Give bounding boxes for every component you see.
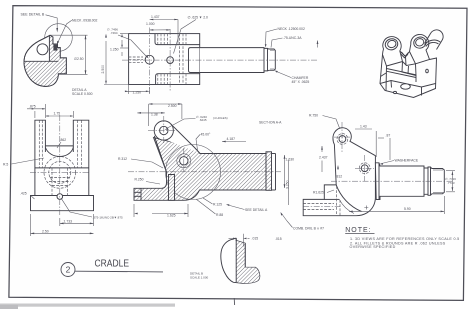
svg-text:1.75: 1.75 <box>54 112 61 116</box>
svg-text:NECK .12500.002: NECK .12500.002 <box>278 27 305 31</box>
svg-text:SEE DETAIL A: SEE DETAIL A <box>245 208 268 212</box>
svg-text:4.187: 4.187 <box>227 137 236 141</box>
svg-text:R.5: R.5 <box>3 163 8 167</box>
svg-text:1.733: 1.733 <box>64 219 73 223</box>
svg-text:2: 2 <box>66 265 71 275</box>
svg-text:45° X .0625: 45° X .0625 <box>292 80 310 84</box>
svg-text:R.250: R.250 <box>135 178 144 182</box>
svg-text:.6245: .6245 <box>199 118 207 122</box>
svg-text:2.437: 2.437 <box>319 156 328 160</box>
svg-text:3.250: 3.250 <box>286 180 290 189</box>
svg-text:∅ .625 ▼ 2.0: ∅ .625 ▼ 2.0 <box>188 16 209 20</box>
svg-text:5.90: 5.90 <box>404 207 411 211</box>
svg-text:1.43: 1.43 <box>360 125 367 129</box>
svg-text:.375-16UNC-2B▼.875: .375-16UNC-2B▼.875 <box>93 216 123 220</box>
svg-text:.015: .015 <box>252 237 259 241</box>
svg-text:NECK .0938.002: NECK .0938.002 <box>72 19 98 23</box>
svg-text:1.630: 1.630 <box>286 158 295 162</box>
svg-text:NOTE:: NOTE: <box>345 227 371 234</box>
svg-text:SCALE 1.000: SCALE 1.000 <box>190 276 209 280</box>
svg-text:SCALE 0.500: SCALE 0.500 <box>72 92 93 96</box>
svg-text:45.00°: 45.00° <box>201 133 211 137</box>
svg-text:.7713: .7713 <box>447 181 455 185</box>
svg-text:R.88: R.88 <box>216 213 223 217</box>
svg-text:(4 HOLES): (4 HOLES) <box>213 116 228 120</box>
svg-text:R.312: R.312 <box>118 157 127 161</box>
svg-text:.812: .812 <box>336 175 343 179</box>
svg-text:∅2.50: ∅2.50 <box>74 57 84 61</box>
svg-text:R.750: R.750 <box>309 114 318 118</box>
svg-text:1.250: 1.250 <box>110 48 119 52</box>
svg-text:1. 3D VIEWS ARE FOR REFERENCES: 1. 3D VIEWS ARE FOR REFERENCES ONLY SCAL… <box>350 237 460 241</box>
svg-text:1.625: 1.625 <box>167 214 176 218</box>
svg-text:.015: .015 <box>275 237 282 241</box>
svg-text:1.250: 1.250 <box>133 90 142 94</box>
svg-text:2.50: 2.50 <box>42 229 49 233</box>
svg-text:.875: .875 <box>29 104 36 108</box>
svg-text:2.500: 2.500 <box>168 104 177 108</box>
svg-text:2.500: 2.500 <box>101 65 105 74</box>
svg-text:.862: .862 <box>60 138 67 142</box>
svg-text:1.38: 1.38 <box>151 113 158 117</box>
svg-text:R1.625: R1.625 <box>313 191 324 195</box>
svg-text:1.000: 1.000 <box>146 22 155 26</box>
svg-text:1.437: 1.437 <box>151 15 160 19</box>
svg-text:.7494: .7494 <box>110 31 118 35</box>
svg-text:SECT-ION A-A: SECT-ION A-A <box>259 121 282 125</box>
svg-text:COMB. DRIL B ∨ #7: COMB. DRIL B ∨ #7 <box>293 227 324 231</box>
svg-text:.87: .87 <box>386 134 391 138</box>
svg-text:.75-UNC-3A: .75-UNC-3A <box>283 36 302 40</box>
svg-text:R.125: R.125 <box>213 203 222 207</box>
svg-text:WASHERFACE: WASHERFACE <box>395 159 419 163</box>
svg-text:SEE DETAIL B: SEE DETAIL B <box>21 13 45 17</box>
svg-text:.425: .425 <box>20 192 27 196</box>
svg-text:CRADLE: CRADLE <box>95 259 130 270</box>
svg-text:OVERWISE SPECIFIED: OVERWISE SPECIFIED <box>350 245 396 249</box>
